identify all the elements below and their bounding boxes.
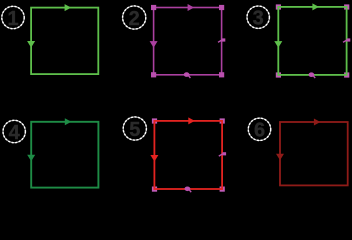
svg-text:3: 3 [253,8,264,30]
svg-text:6: 6 [254,120,265,142]
svg-text:2: 2 [129,8,140,30]
svg-text:1: 1 [7,8,18,30]
svg-text:5: 5 [129,119,140,141]
svg-text:4: 4 [9,122,21,144]
